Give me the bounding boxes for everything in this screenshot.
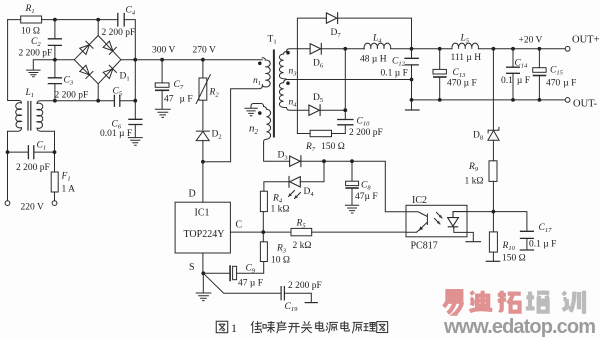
node bridge right rail: [133, 58, 137, 62]
diode D4: [289, 176, 300, 187]
svg-text:C10: C10: [357, 117, 371, 128]
wire rectifier node column: [344, 49, 346, 120]
wire D8 to R9: [492, 140, 494, 161]
svg-text:D3: D3: [278, 151, 288, 162]
node C12 top: [410, 47, 414, 51]
svg-text:C8: C8: [361, 181, 371, 192]
resistor R9: [489, 161, 497, 182]
wire fb node to R10: [492, 212, 494, 232]
wire 0V T-bar stem: [411, 100, 413, 110]
node C1 right: [53, 150, 57, 154]
wire D5 to node: [320, 109, 345, 111]
caption char dian: [316, 322, 324, 331]
watermark char di red: [470, 291, 493, 312]
node bridge bottom row: [96, 99, 100, 103]
wire drain loop to n1 bottom: [203, 86, 262, 162]
node D8 tap: [492, 47, 496, 51]
svg-text:1 A: 1 A: [62, 185, 76, 195]
svg-text:D4: D4: [304, 187, 315, 198]
D4 arrows: [289, 191, 301, 199]
svg-text:1 kΩ: 1 kΩ: [271, 205, 290, 215]
wire D3 to C8 node to IC2: [301, 161, 406, 212]
svg-text:C19: C19: [285, 302, 299, 313]
wire C19 right to bar: [285, 293, 311, 302]
wire L5 to OUT+ terminal: [479, 48, 566, 50]
svg-text:2 200 pF: 2 200 pF: [19, 49, 53, 59]
wire R4 top to D4 row: [264, 182, 289, 191]
svg-text:C14: C14: [515, 59, 529, 70]
node center tap at C12: [410, 78, 414, 82]
node C5 right: [133, 99, 137, 103]
svg-text:R3: R3: [276, 244, 287, 255]
svg-text:R1: R1: [25, 4, 35, 15]
fuse F1: [51, 172, 58, 192]
diode D5: [309, 105, 320, 116]
svg-text:IC2: IC2: [412, 195, 427, 206]
resistor R4: [260, 191, 267, 211]
svg-text:10 Ω: 10 Ω: [271, 256, 290, 266]
svg-text:n3: n3: [289, 67, 298, 78]
T-bar termination C19: [305, 302, 317, 304]
caption char kai: [288, 323, 299, 332]
transformer secondary n4 winding: [279, 80, 286, 108]
wire node to R5: [263, 231, 291, 233]
svg-text:470µ F: 470µ F: [546, 79, 576, 89]
svg-text:C9: C9: [246, 264, 256, 275]
T-bar below C17: [520, 249, 533, 251]
wire +rail C12 to C13 to L5: [412, 48, 453, 50]
T-bar below R10: [486, 260, 499, 262]
wire L1 right bottom lead: [37, 128, 55, 152]
IC2 box: [406, 205, 467, 237]
IC1 box: [175, 202, 230, 253]
node 270V: [201, 58, 205, 62]
svg-text:220 V: 220 V: [21, 203, 44, 213]
terminal 220V left: [5, 201, 10, 206]
svg-text:10 Ω: 10 Ω: [21, 27, 40, 37]
resistor R10: [489, 232, 497, 252]
ground below C6: [128, 138, 142, 146]
resistor R1: [21, 16, 42, 23]
wire IC1 C pin to node: [230, 231, 263, 233]
svg-text:1: 1: [231, 321, 237, 335]
wire D8 column top: [492, 49, 494, 130]
wire IC2 LED anode out: [467, 211, 493, 213]
wire C13 branch: [439, 49, 441, 100]
diode D3: [290, 156, 301, 167]
wire L1 left bottom lead: [8, 128, 22, 152]
svg-text:+20 V: +20 V: [519, 36, 543, 46]
polarity dot n2: [258, 111, 262, 115]
node IC1 control: [261, 230, 265, 234]
IC2 LED: [448, 212, 467, 228]
wire C7 branch: [161, 60, 163, 109]
svg-text:111 µ H: 111 µ H: [451, 53, 482, 63]
node D3 junction: [322, 159, 326, 163]
svg-text:n1: n1: [253, 76, 261, 87]
svg-text:48 µ H: 48 µ H: [360, 55, 387, 65]
svg-text:2 200 pF: 2 200 pF: [102, 28, 136, 38]
node C14 top: [511, 47, 515, 51]
wire C6 ground stem: [134, 125, 136, 138]
svg-text:R5: R5: [296, 219, 307, 230]
transformer secondary n3 winding: [279, 52, 286, 80]
watermark char xun gray: [563, 291, 584, 314]
svg-text:300 V: 300 V: [152, 46, 175, 56]
caption char yuan source: [326, 322, 337, 332]
svg-text:1 kΩ: 1 kΩ: [465, 177, 484, 187]
svg-text:150 Ω: 150 Ω: [502, 254, 526, 264]
capacitor C8 electrolytic: [346, 181, 359, 188]
IC2 phototransistor: [406, 212, 427, 232]
svg-text:0.1 µ F: 0.1 µ F: [381, 69, 408, 79]
wire bottom EMI row: [55, 100, 135, 102]
wire n4 bottom to D5: [287, 108, 309, 111]
wire bridge right to main rail: [121, 59, 262, 61]
caption char li: [364, 323, 376, 331]
capacitor C13 electrolytic: [433, 69, 446, 77]
svg-text:OUT+: OUT+: [572, 35, 600, 46]
svg-text:www.edatop.com: www.edatop.com: [443, 316, 596, 338]
terminal 220V right: [52, 201, 57, 206]
node C14 bottom: [511, 98, 515, 102]
caption char yuan origin: [352, 322, 362, 333]
wire R10 bottom stem: [492, 252, 494, 261]
svg-text:T1: T1: [268, 35, 277, 46]
svg-text:D7: D7: [331, 28, 342, 39]
svg-text:R7150 Ω: R7150 Ω: [305, 142, 345, 153]
wire top rail left: [8, 19, 117, 21]
T-bar 0V ground: [406, 109, 420, 111]
svg-text:L5: L5: [460, 34, 470, 45]
svg-text:47 µ F: 47 µ F: [238, 279, 263, 289]
svg-text:C15: C15: [550, 66, 564, 77]
node C15 bottom: [538, 98, 542, 102]
terminal OUT+: [565, 46, 570, 51]
wire IC2 LED cathode to bar: [454, 228, 474, 242]
svg-text:D8: D8: [473, 131, 483, 142]
svg-text:C5: C5: [113, 87, 123, 98]
svg-text:L1: L1: [25, 88, 35, 99]
svg-text:D5: D5: [313, 93, 323, 104]
ground below C8: [346, 205, 359, 213]
caption char sheng: [277, 321, 286, 333]
wire left border: [8, 20, 19, 101]
watermark char pei gray: [526, 290, 550, 311]
svg-text:D1: D1: [120, 72, 130, 83]
capacitor C15 electrolytic: [533, 68, 546, 76]
capacitor C4: [118, 14, 124, 27]
polarity dot n3: [286, 51, 290, 55]
caption figure number glyph: [216, 321, 227, 332]
IC2 LED arrows: [435, 213, 443, 225]
svg-text:C2: C2: [31, 37, 41, 48]
node D5 out: [343, 108, 347, 112]
capacitor C10: [338, 120, 353, 125]
terminal OUT-: [565, 98, 570, 103]
node bridge top feed: [96, 18, 100, 22]
wire D2 to drain node: [202, 140, 204, 202]
ground at IC1 source: [196, 293, 211, 301]
wire D6 to L4: [321, 48, 364, 50]
transformer primary n1 winding: [262, 58, 270, 87]
svg-text:0.01 µ F: 0.01 µ F: [100, 129, 132, 139]
node C15 top: [538, 47, 542, 51]
wire C9 row: [203, 262, 263, 274]
svg-text:0.1 µ F: 0.1 µ F: [529, 240, 556, 250]
svg-text:C1: C1: [37, 141, 47, 152]
capacitor C7 electrolytic: [155, 83, 169, 90]
capacitor C17: [521, 231, 534, 238]
svg-text:D2: D2: [212, 130, 222, 141]
wire C17 bottom stem: [526, 238, 528, 249]
node C13 top: [438, 47, 442, 51]
caption char di: [251, 322, 262, 333]
node feedback: [492, 210, 496, 214]
wire node to R4: [262, 212, 264, 233]
resistor R5: [291, 228, 312, 235]
svg-text:2 200 pF: 2 200 pF: [349, 128, 383, 138]
bridge diode bottom-right: [103, 65, 117, 79]
capacitor C19: [281, 287, 284, 300]
transformer T1 core: [273, 51, 275, 137]
wire 220V left drop: [7, 152, 9, 201]
svg-text:OUT-: OUT-: [573, 99, 598, 110]
node R1-C2: [53, 18, 57, 22]
svg-text:470 µ F: 470 µ F: [447, 79, 477, 89]
resistor R3: [260, 242, 267, 262]
caption char dian2: [341, 322, 349, 331]
svg-text:n2: n2: [249, 123, 259, 136]
wire bridge top feed: [97, 20, 99, 36]
capacitor C1: [28, 146, 33, 159]
svg-text:2 200 pF: 2 200 pF: [16, 163, 50, 173]
wire C4 to right corner: [124, 20, 135, 120]
bridge D1 diamond: [74, 36, 121, 84]
node C2 bottom: [53, 58, 57, 62]
wire L1 right lead to node: [37, 101, 55, 104]
svg-text:D: D: [189, 189, 196, 200]
node C3 bottom row left: [53, 99, 57, 103]
watermark char yi red: [444, 291, 464, 314]
svg-text:R10: R10: [502, 241, 516, 252]
svg-text:2 kΩ: 2 kΩ: [293, 241, 312, 251]
wire C3 branch: [54, 60, 56, 101]
wire C2 branch: [54, 20, 56, 60]
capacitor C5: [114, 95, 119, 106]
polarity dot n4: [286, 81, 290, 85]
wire C14 branch: [512, 49, 514, 100]
capacitor C6: [129, 119, 142, 124]
wire n2 top hook to ground: [251, 104, 264, 108]
bridge diode top-right: [103, 41, 117, 55]
svg-text:C3: C3: [64, 76, 74, 87]
inductor L1 right winding: [37, 103, 43, 128]
wire C15 branch: [538, 49, 540, 100]
wire Y-cap diagonal: [203, 273, 280, 293]
inductor L4: [364, 43, 391, 49]
caption char zao: [263, 322, 275, 333]
svg-text:C4: C4: [126, 6, 136, 17]
wire L4 to C12 node: [391, 48, 412, 50]
wire D4 to node riser: [300, 161, 324, 182]
ground below C7: [155, 109, 170, 117]
svg-text:C: C: [236, 220, 243, 231]
svg-text:D6: D6: [313, 59, 324, 70]
capacitor C12: [405, 58, 418, 65]
wire IC1 source pin: [202, 253, 204, 273]
bridge diode bottom-left: [79, 65, 93, 79]
capacitor C14: [507, 67, 520, 73]
wire n3 top to D6: [287, 49, 311, 52]
svg-text:2 200 pF: 2 200 pF: [55, 91, 89, 101]
wire center tap line: [287, 79, 412, 81]
wire ground stub near C2: [33, 60, 55, 70]
svg-text:270 V: 270 V: [193, 46, 216, 56]
wire fb node to C17: [493, 212, 527, 231]
zener D8: [488, 127, 499, 140]
node C13 bottom: [438, 98, 442, 102]
svg-text:0.1µ F: 0.1µ F: [501, 76, 530, 86]
bridge diode top-left: [79, 41, 93, 55]
svg-text:L4: L4: [372, 34, 382, 45]
svg-text:C7: C7: [174, 80, 184, 91]
svg-text:2 200 pF: 2 200 pF: [288, 281, 322, 291]
svg-text:IC1: IC1: [195, 208, 210, 219]
polarity dot n1: [258, 62, 262, 66]
wire R2 branch: [202, 60, 204, 130]
capacitor C2: [48, 39, 61, 46]
node drain clamp: [201, 160, 205, 164]
wire C12 branch: [411, 49, 413, 100]
wire R7 row: [297, 125, 345, 133]
transformer bias winding n2: [264, 107, 271, 145]
svg-text:PC817: PC817: [411, 241, 438, 252]
node IC1 source: [201, 271, 205, 275]
svg-text:R4: R4: [272, 194, 283, 205]
T-bar below IC2 LED: [466, 241, 481, 243]
caption char guan: [301, 322, 311, 333]
wire R9 to fb node: [492, 181, 494, 211]
diode D6: [310, 43, 321, 54]
node C8 top: [350, 159, 354, 163]
svg-text:n4: n4: [289, 98, 298, 109]
caption char tu2: [377, 322, 388, 333]
wire bridge bottom feed: [97, 84, 99, 101]
capacitor C9 electrolytic: [230, 266, 237, 281]
wire n2 bottom to D3: [264, 144, 290, 161]
wire C8 branch: [351, 161, 353, 205]
zener D2: [196, 131, 209, 141]
diode D7: [326, 13, 337, 24]
watermark char tuo red: [498, 291, 521, 312]
wire node to R3: [262, 232, 264, 242]
wire bridge left feed: [55, 59, 74, 61]
svg-text:R9: R9: [468, 162, 479, 173]
varistor R2: [196, 75, 210, 104]
ground hook above n2: [245, 108, 257, 116]
inductor L1 core: [28, 102, 31, 131]
wire source ground stem: [202, 273, 204, 292]
svg-text:C17: C17: [539, 223, 553, 234]
node 300V: [160, 58, 164, 62]
svg-text:47µ F: 47µ F: [164, 95, 193, 105]
resistor R7: [310, 130, 331, 136]
svg-text:C12: C12: [392, 57, 406, 68]
capacitor C3: [48, 78, 61, 84]
svg-text:F1: F1: [61, 172, 71, 183]
svg-text:TOP224Y: TOP224Y: [184, 229, 225, 240]
node C1 left: [6, 150, 10, 154]
wire C1 row: [8, 151, 55, 153]
node 0V ground: [410, 98, 414, 102]
wire R5 to IC2: [312, 231, 406, 233]
wire F1 leads: [54, 152, 56, 201]
ground near C2: [27, 70, 40, 77]
inductor L1 common-mode choke left winding: [16, 101, 22, 128]
wire D7 loop: [297, 18, 411, 133]
inductor L5: [452, 43, 479, 49]
node D6 out: [343, 47, 347, 51]
wire OUT- rail: [412, 99, 566, 101]
svg-text:S: S: [189, 262, 195, 273]
svg-text:47µ F: 47µ F: [355, 192, 378, 202]
svg-text:R2: R2: [209, 88, 220, 99]
